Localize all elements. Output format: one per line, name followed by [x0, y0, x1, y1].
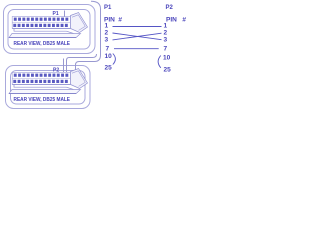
jumper bracket pins 10-25 (right, P2) [158, 56, 161, 68]
svg-text:10: 10 [105, 53, 113, 60]
svg-text:3: 3 [164, 37, 168, 44]
connector J2 DB25 male rear view (bottom) [9, 69, 88, 104]
svg-text:3: 3 [105, 37, 109, 44]
pin row 1 [14, 18, 69, 21]
connector J1 DB25 male rear view (top) [9, 13, 88, 48]
shell right end (perspective) [71, 13, 88, 33]
pin row 2 [13, 24, 68, 27]
wire from P2 coil up to junction [67, 54, 97, 72]
svg-text:PIN: PIN [166, 16, 177, 23]
svg-text:P1: P1 [104, 5, 112, 11]
svg-text:2: 2 [164, 30, 168, 37]
svg-text:P1: P1 [53, 11, 59, 17]
wire pin2 to pin3 (crossover) [113, 33, 162, 40]
flange bar [9, 34, 81, 38]
cable coil outer loop around P1 [4, 5, 96, 54]
jumper bracket pins 10-25 (left, P1) [113, 54, 116, 65]
svg-text:10: 10 [163, 55, 171, 62]
svg-text:REAR VIEW, DB25 MALE: REAR VIEW, DB25 MALE [14, 41, 71, 47]
svg-text:#: # [118, 16, 122, 23]
cable coil inner loop around P1 [8, 10, 90, 50]
shell body lower edge [13, 28, 71, 30]
wire cable tail from connector P2 [63, 59, 65, 73]
shell outline top row [12, 17, 70, 29]
svg-text:P2: P2 [166, 5, 174, 11]
svg-text:2: 2 [105, 30, 109, 37]
wire pin1 to pin1 [113, 26, 162, 28]
svg-text:25: 25 [105, 65, 113, 72]
svg-text:25: 25 [164, 67, 172, 74]
wire pin7 to pin7 [114, 48, 159, 50]
cable coil inner loop around P2 [11, 71, 86, 105]
wire pin3 to pin2 (crossover) [113, 33, 162, 40]
wire cable tail from connector P1 [64, 11, 66, 18]
cable coil outer loop around P2 [6, 66, 91, 109]
svg-text:7: 7 [106, 46, 110, 53]
svg-text:7: 7 [164, 46, 168, 53]
svg-text:#: # [182, 16, 186, 23]
wire from P1 coil down right side to P2 [76, 1, 101, 72]
